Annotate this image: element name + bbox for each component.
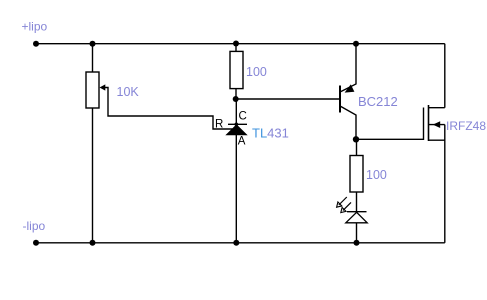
led D1 light arrow 1	[337, 197, 347, 207]
wire base of Q1	[236, 98, 340, 100]
svg-text:C: C	[239, 111, 247, 123]
label pin R	[215, 119, 223, 131]
label R2 100	[246, 65, 267, 79]
svg-text:A: A	[238, 136, 246, 148]
svg-text:TL431: TL431	[252, 126, 289, 141]
mosfet Q2 source stub	[429, 139, 445, 141]
label R3 100	[366, 168, 387, 182]
svg-text:BC212: BC212	[358, 94, 398, 109]
node junction pot top	[90, 41, 96, 47]
wire bottom rail -lipo	[36, 242, 445, 244]
mosfet Q2 body line	[429, 124, 445, 126]
wire TL431 anode	[235, 135, 237, 243]
svg-text:100: 100	[246, 65, 267, 79]
mosfet Q2 gate bar	[423, 108, 425, 141]
wire top rail +lipo	[36, 43, 445, 45]
wire R3 to LED	[356, 192, 358, 212]
node -lipo label	[23, 219, 46, 233]
wire TL431 cathode	[235, 99, 237, 124]
label pin C	[239, 111, 247, 123]
resistor R3 100 body	[350, 156, 363, 193]
wire LED to bottom rail	[356, 223, 358, 243]
resistor R2 100 body	[230, 51, 243, 88]
mosfet Q2 channel bar	[428, 105, 430, 141]
label 10K	[117, 85, 140, 99]
svg-text:IRFZ48: IRFZ48	[446, 119, 486, 133]
node junction R2 top	[233, 41, 239, 47]
node junction collector / gate	[353, 136, 359, 142]
potentiometer R1 10K body	[86, 72, 99, 108]
node junction TL431 bottom	[233, 240, 239, 246]
wire gate	[356, 138, 424, 140]
node junction LED bottom	[354, 240, 360, 246]
mosfet Q2 drain stub	[429, 107, 445, 109]
transistor Q1 BC212 base bar	[339, 86, 341, 113]
led D1 cathode bar	[347, 211, 367, 213]
node junction top-left	[33, 41, 39, 47]
regulator U1 TL431 cathode bar	[228, 123, 247, 125]
label U1 TL431	[252, 126, 289, 141]
wire right drain lead	[444, 44, 446, 108]
regulator U1 TL431 triangle	[226, 125, 246, 135]
node +lipo label	[22, 20, 48, 34]
svg-text:+lipo: +lipo	[22, 20, 48, 34]
svg-text:10K: 10K	[117, 85, 140, 99]
led D1 light arrow 2	[341, 202, 351, 212]
wire right source lead	[444, 125, 446, 243]
transistor Q1 emitter	[340, 44, 356, 92]
wire collector to R3	[356, 139, 358, 155]
label pin A	[238, 136, 246, 148]
wire pot top	[92, 44, 94, 72]
svg-text:-lipo: -lipo	[23, 219, 46, 233]
svg-text:100: 100	[366, 168, 387, 182]
transistor Q1 collector	[340, 106, 356, 139]
led D1 triangle	[346, 212, 367, 223]
wire pot bottom	[92, 108, 94, 243]
svg-text:R: R	[215, 119, 223, 131]
node junction pot bottom	[90, 240, 96, 246]
wire R2 bottom	[235, 89, 237, 99]
node junction bottom-left	[33, 240, 39, 246]
potentiometer R1 wiper arrow	[100, 84, 233, 129]
label Q1 BC212	[358, 94, 398, 109]
mosfet Q2 body arrow	[433, 121, 440, 128]
wire R2 top	[235, 44, 237, 52]
transistor Q1 emitter arrow	[345, 84, 355, 92]
node junction TL431 bar	[235, 123, 239, 127]
node junction R2 / base	[233, 96, 239, 102]
node junction emitter top	[353, 41, 359, 47]
label Q2 IRFZ48	[446, 119, 486, 133]
